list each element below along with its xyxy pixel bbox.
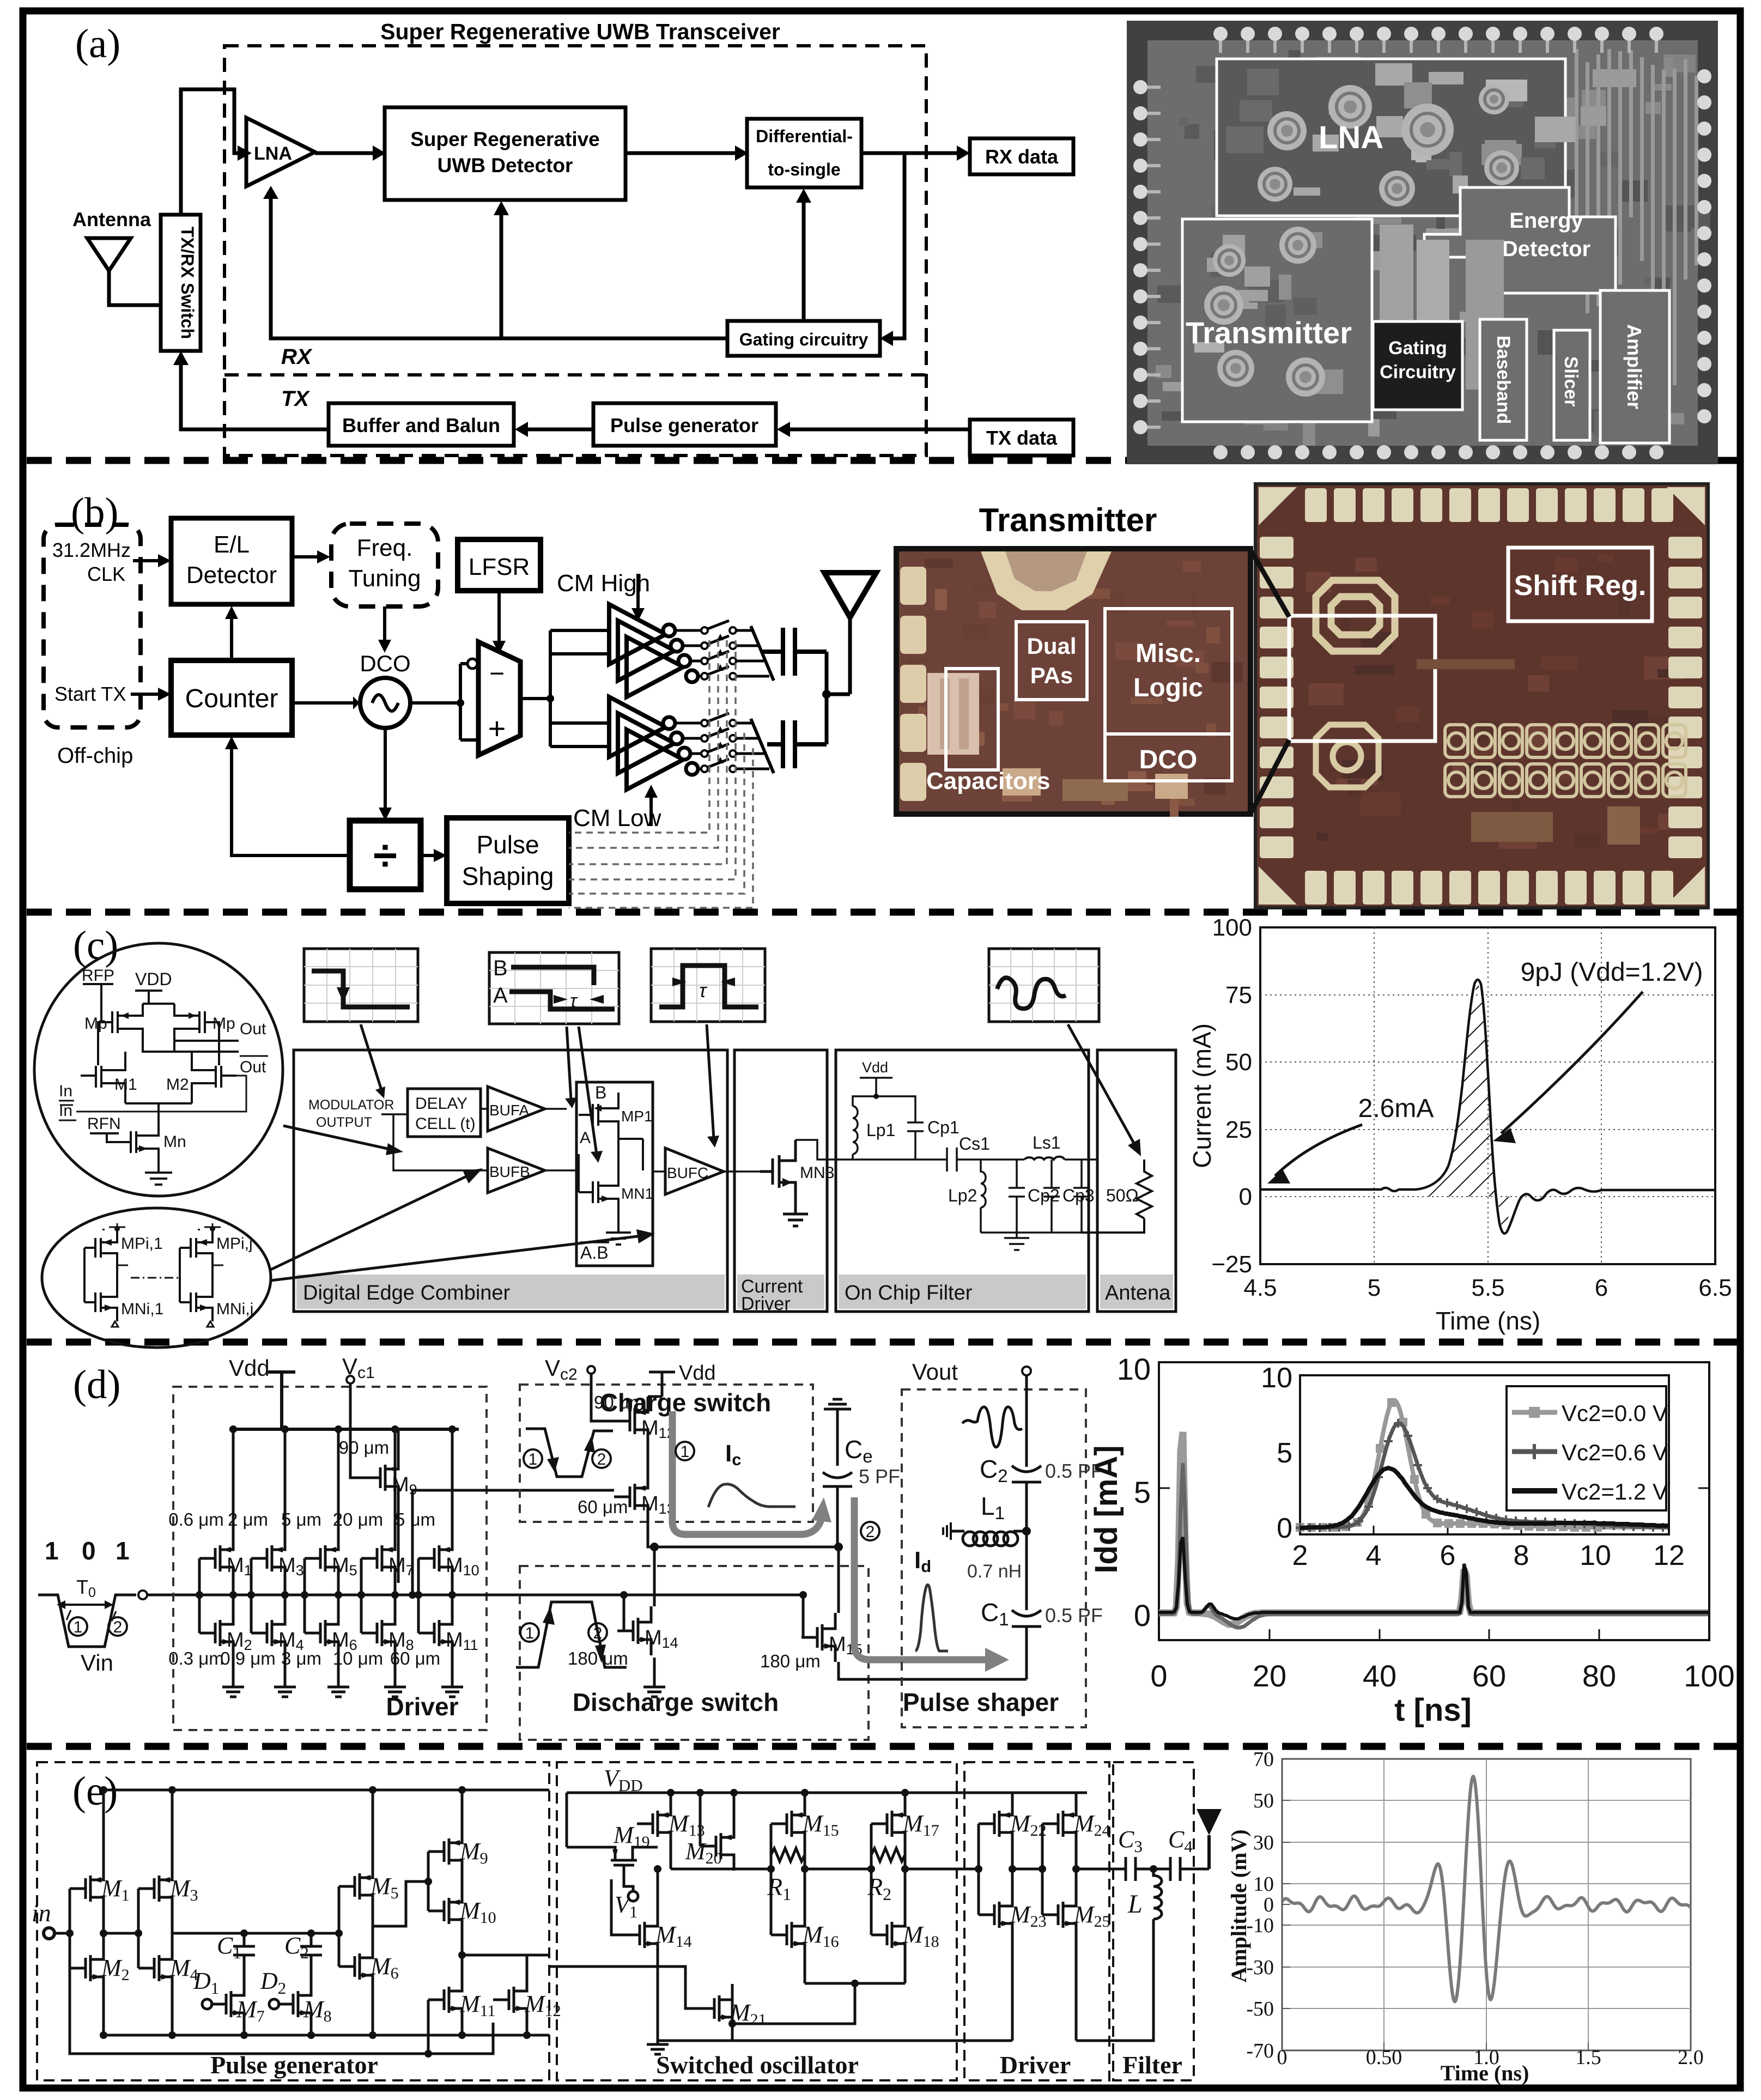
svg-text:LFSR: LFSR — [469, 554, 530, 580]
svg-text:MPi,j: MPi,j — [216, 1235, 253, 1253]
bottom rail + gnd — [981, 1233, 1082, 1250]
stage wires — [418, 1429, 452, 1682]
svg-text:5.5: 5.5 — [1471, 1274, 1504, 1301]
inset box — [1300, 1375, 1669, 1534]
Lp2 — [981, 1160, 986, 1233]
Digital Edge Combiner box — [294, 1050, 727, 1312]
TX/RX switch box — [161, 215, 201, 351]
delay cell detail ellipse — [34, 943, 283, 1196]
Dual PAs label box — [1016, 622, 1087, 700]
svg-text:5: 5 — [1134, 1475, 1151, 1509]
wire detector to diff — [626, 151, 735, 155]
inv2 wires — [138, 1790, 339, 2035]
svg-text:2.6mA: 2.6mA — [1358, 1094, 1434, 1123]
gray arrow 1 — [672, 1411, 822, 1534]
svg-text:0.9 μm: 0.9 μm — [220, 1648, 276, 1668]
off-chip dashed box — [44, 525, 141, 727]
svg-text:Out: Out — [240, 1058, 266, 1076]
TX full chip photo — [1255, 484, 1708, 908]
svg-text:5 PF: 5 PF — [859, 1465, 900, 1488]
svg-text:MN3: MN3 — [800, 1164, 834, 1182]
svg-text:Amplitude (mV): Amplitude (mV) — [1226, 1829, 1251, 1982]
panel separator a/b — [27, 457, 1737, 464]
svg-text:0: 0 — [1134, 1598, 1151, 1632]
nmos M8 — [277, 1980, 311, 2029]
nmos MN1 — [576, 1139, 618, 1221]
pmos M3 — [251, 1534, 285, 1583]
gating to LNA bottom feedback — [271, 198, 727, 338]
buffer bank upper — [609, 604, 683, 697]
svg-text:CM Low: CM Low — [573, 805, 661, 831]
gating circuitry box — [727, 321, 880, 356]
inset black curve — [1300, 1468, 1668, 1528]
svg-text:to-single: to-single — [768, 160, 840, 179]
svg-text:Slicer: Slicer — [1560, 356, 1581, 407]
svg-text:A: A — [580, 1129, 591, 1147]
cross coupling wires — [98, 1022, 219, 1065]
output node — [618, 1139, 643, 1170]
svg-text:0: 0 — [1239, 1183, 1252, 1210]
stack wires — [428, 1790, 549, 2054]
svg-text:in: in — [32, 1899, 51, 1927]
Energy Detector outline — [1424, 187, 1616, 293]
svg-text:TX: TX — [281, 387, 310, 411]
svg-text:Time (ns): Time (ns) — [1441, 2061, 1529, 2085]
svg-text:100: 100 — [1684, 1659, 1734, 1693]
svg-text:9pJ (Vdd=1.2V): 9pJ (Vdd=1.2V) — [1521, 958, 1703, 987]
svg-text:10: 10 — [1580, 1540, 1611, 1571]
svg-text:LNA: LNA — [254, 143, 292, 164]
svg-text:12: 12 — [1653, 1540, 1685, 1571]
svg-text:10: 10 — [1117, 1352, 1151, 1386]
Idd plot — [1089, 1352, 1735, 1728]
svg-text:0: 0 — [1277, 1513, 1292, 1544]
svg-text:1: 1 — [525, 1624, 535, 1642]
svg-text:0.3 μm: 0.3 μm — [168, 1648, 224, 1668]
pad ring right — [1697, 69, 1711, 83]
Driver dashed box — [173, 1387, 487, 1730]
svg-text:90 μm: 90 μm — [339, 1437, 389, 1458]
svg-text:6: 6 — [1595, 1274, 1608, 1301]
ground SO — [647, 2039, 669, 2054]
node and wire down to gating right — [892, 153, 904, 338]
nmos M14 — [624, 1910, 658, 1959]
misc mid blocks — [1380, 224, 1413, 361]
svg-text:0: 0 — [1150, 1659, 1167, 1693]
svg-text:(b): (b) — [71, 490, 118, 535]
TX data to pulse gen wire — [789, 428, 970, 432]
pad ring right chip — [1259, 487, 1705, 905]
nmos MNi,1 — [84, 1248, 117, 1321]
Filter dashed box — [1113, 1762, 1194, 2080]
svg-text:CLK: CLK — [87, 563, 125, 585]
svg-text:A.B: A.B — [580, 1243, 609, 1263]
svg-text:On Chip Filter: On Chip Filter — [845, 1282, 973, 1304]
svg-text:4: 4 — [1366, 1540, 1382, 1571]
ground — [441, 1682, 463, 1697]
RX data box — [970, 138, 1073, 174]
coupling capacitor lower — [767, 720, 827, 768]
zoom lines — [1252, 551, 1289, 812]
buffer bank lower — [609, 697, 683, 790]
switch row upper2 — [683, 645, 701, 647]
panel separator c/d — [27, 1339, 1737, 1346]
Current Driver box — [734, 1050, 827, 1312]
svg-text:50: 50 — [1253, 1789, 1274, 1812]
pmos M9 — [428, 1827, 462, 1876]
top rail — [104, 1789, 549, 1792]
svg-text:BUFB: BUFB — [489, 1163, 530, 1180]
rising ctrl waveform — [516, 1602, 627, 1667]
On Chip Filter box — [836, 1050, 1089, 1312]
svg-text:Super Regenerative: Super Regenerative — [410, 128, 600, 150]
bottom rail — [104, 2034, 549, 2037]
svg-text:8: 8 — [1514, 1540, 1529, 1571]
ground — [222, 1682, 244, 1697]
DELAY CELL box — [408, 1089, 481, 1137]
svg-text:Lp2: Lp2 — [948, 1186, 977, 1205]
svg-text:Buffer and Balun: Buffer and Balun — [342, 414, 500, 436]
nmos M15 — [801, 1613, 835, 1662]
svg-text:Antenna: Antenna — [72, 208, 151, 230]
capacitor bank block — [927, 673, 979, 755]
pulse gen to buffer wire — [527, 428, 593, 432]
main line — [836, 1158, 1097, 1161]
Driver dashed box — [964, 1762, 1109, 2080]
svg-text:Switched oscillator: Switched oscillator — [656, 2051, 859, 2079]
Capacitors label box — [946, 669, 998, 770]
svg-text:Cp1: Cp1 — [927, 1118, 960, 1137]
svg-text:TX data: TX data — [986, 427, 1058, 449]
50ohm resistor — [1082, 1160, 1152, 1233]
nmos M2 — [199, 1609, 233, 1658]
svg-text:M2: M2 — [166, 1076, 189, 1094]
pmos M19 — [599, 1847, 648, 1881]
svg-text:M1: M1 — [114, 1076, 137, 1094]
RX/TX divider dashed — [224, 373, 926, 377]
svg-text:E/L: E/L — [214, 531, 250, 558]
svg-text:1: 1 — [529, 1450, 538, 1468]
svg-text:Discharge switch: Discharge switch — [573, 1688, 779, 1716]
svg-text:2 μm: 2 μm — [228, 1509, 268, 1530]
Charge switch dashed box — [520, 1385, 813, 1522]
wire LNA out to detector — [315, 151, 373, 155]
svg-text:OUTPUT: OUTPUT — [316, 1115, 372, 1130]
svg-text:6.5: 6.5 — [1698, 1274, 1732, 1301]
svg-text:Mn: Mn — [163, 1133, 186, 1151]
buffer BUFA — [488, 1087, 545, 1131]
M13 drain to node — [648, 1521, 839, 1547]
LNA block outline — [1217, 59, 1565, 216]
TX chip inset photo — [896, 549, 1250, 814]
top pad structure — [981, 551, 1112, 610]
chip micrograph A — [1127, 21, 1718, 464]
svg-text:PAs: PAs — [1030, 663, 1073, 688]
svg-text:Energy: Energy — [1509, 209, 1583, 233]
wire E/L to Freq — [292, 555, 318, 559]
svg-text:180 μm: 180 μm — [568, 1648, 628, 1668]
svg-text:100: 100 — [1212, 914, 1252, 941]
pmos Mp right — [174, 1004, 205, 1041]
nmos M25 — [1042, 1890, 1076, 1939]
svg-text:Current (mA): Current (mA) — [1188, 1023, 1216, 1168]
Transmitter block outline — [1182, 219, 1372, 422]
svg-text:Detector: Detector — [1502, 237, 1590, 261]
svg-text:Ls1: Ls1 — [1033, 1133, 1061, 1152]
stage wires — [199, 1429, 233, 1682]
svg-text:÷: ÷ — [373, 831, 397, 879]
gray baseline band — [1159, 1432, 1708, 1624]
logic chain wire — [189, 1594, 803, 1597]
nmos Mn — [131, 1122, 159, 1166]
feedback to detector bottom — [500, 214, 503, 338]
svg-text:MPi,1: MPi,1 — [121, 1235, 163, 1253]
switch row upper3 — [691, 660, 701, 663]
svg-text:60 μm: 60 μm — [578, 1497, 628, 1517]
pmos MPi,1 — [84, 1229, 117, 1265]
Slicer block — [1554, 330, 1590, 440]
svg-text:Differential-: Differential- — [756, 126, 853, 146]
svg-text:B: B — [595, 1083, 606, 1102]
svg-text:Out: Out — [240, 1020, 266, 1038]
svg-text:Start TX: Start TX — [54, 683, 126, 705]
svg-text:RX data: RX data — [985, 145, 1059, 168]
Baseband block — [1480, 319, 1527, 440]
svg-text:Baseband: Baseband — [1493, 336, 1514, 424]
arrows from ellipses — [283, 1126, 392, 1150]
svg-text:MP1: MP1 — [621, 1108, 653, 1125]
wire Counter to E/L — [230, 618, 233, 660]
svg-text:Driver: Driver — [741, 1294, 791, 1314]
svg-text:180 μm: 180 μm — [760, 1651, 821, 1671]
Discharge switch dashed box — [520, 1566, 869, 1740]
inset sine — [989, 949, 1099, 1022]
pmos M3 — [138, 1864, 172, 1913]
pmos M17 — [871, 1799, 905, 1848]
circled 1 — [69, 1617, 87, 1636]
svg-text:LNA: LNA — [1319, 120, 1383, 155]
svg-text:A: A — [493, 984, 508, 1007]
svg-text:Gating: Gating — [1388, 338, 1447, 359]
wire DCO to divider — [384, 728, 387, 809]
wire diff to RX data — [861, 151, 957, 155]
wire LFSR to mux — [497, 591, 501, 642]
pmos M15 — [771, 1799, 805, 1848]
nmos M6 — [339, 1942, 373, 1991]
svg-text:Vc2=1.2 V: Vc2=1.2 V — [1562, 1479, 1668, 1504]
dash-dot link — [131, 1277, 180, 1279]
amplitude plot — [1226, 1748, 1704, 2085]
svg-text:Vout: Vout — [912, 1359, 958, 1385]
svg-text:5 μm: 5 μm — [395, 1509, 435, 1530]
svg-text:Vdd: Vdd — [229, 1355, 270, 1381]
svg-text:Tuning: Tuning — [349, 565, 421, 592]
pmos M10 — [428, 1886, 462, 1935]
pmos Mp left — [112, 1004, 143, 1041]
svg-text:−: − — [489, 659, 505, 688]
gray arrow 2 — [854, 1497, 987, 1660]
svg-text:Pulse generator: Pulse generator — [610, 414, 758, 436]
svg-text:DCO: DCO — [360, 651, 410, 676]
svg-text:Logic: Logic — [1133, 673, 1203, 702]
svg-text:5 μm: 5 μm — [281, 1509, 321, 1530]
svg-text:BUFA: BUFA — [489, 1102, 529, 1119]
Misc Logic / DCO label boxes — [1105, 609, 1232, 781]
svg-text:1: 1 — [74, 1618, 83, 1636]
svg-text:B: B — [493, 956, 508, 980]
svg-text:Dual: Dual — [1027, 633, 1076, 659]
differential-to-single box — [747, 119, 861, 187]
ground — [274, 1682, 296, 1697]
E/L Detector block — [171, 518, 292, 604]
svg-text:5: 5 — [1277, 1437, 1292, 1469]
pmos M12 — [614, 1397, 648, 1446]
pmos M22 — [979, 1799, 1012, 1848]
svg-text:L: L — [1127, 1890, 1143, 1919]
stage wires — [361, 1429, 395, 1682]
buffer slice ellipse — [42, 1208, 271, 1348]
svg-text:-50: -50 — [1246, 1998, 1274, 2020]
svg-text:10: 10 — [1253, 1873, 1274, 1896]
Out wire — [143, 1041, 239, 1052]
Freq. Tuning dashed block — [331, 524, 438, 606]
nmos M1 — [81, 1052, 125, 1103]
Ce cap — [823, 1444, 852, 1547]
pmos M13 — [637, 1799, 671, 1848]
svg-text:Vdd: Vdd — [679, 1362, 716, 1385]
LNA spiral inductors — [1328, 85, 1372, 129]
svg-text:DCO: DCO — [1139, 745, 1198, 774]
svg-text:MNi,j: MNi,j — [216, 1300, 253, 1318]
legend — [1507, 1386, 1666, 1510]
svg-text:MN1: MN1 — [621, 1185, 653, 1202]
switch row lower1 — [676, 722, 701, 725]
Pulse generator dashed box — [37, 1762, 549, 2080]
pad ring bottom — [1213, 445, 1228, 459]
falling ctrl waveform — [526, 1429, 613, 1477]
svg-text:(d): (d) — [73, 1362, 120, 1407]
Shift Reg label box — [1508, 548, 1652, 621]
svg-text:Detector: Detector — [186, 562, 277, 588]
svg-text:Vc2=0.6 V: Vc2=0.6 V — [1562, 1440, 1668, 1465]
svg-text:Capacitors: Capacitors — [926, 768, 1050, 794]
ground — [384, 1682, 406, 1697]
In wire to M2 gate — [76, 1076, 246, 1112]
svg-text:Amplifier: Amplifier — [1623, 324, 1645, 409]
svg-text:RX: RX — [281, 345, 313, 369]
svg-text:0: 0 — [1264, 1893, 1274, 1916]
divider block — [350, 821, 421, 889]
svg-text:2: 2 — [597, 1450, 606, 1468]
pmos M5 — [339, 1862, 373, 1911]
R2 resistor — [871, 1848, 905, 1861]
dark gray curve — [1159, 1463, 1708, 1628]
svg-text:40: 40 — [1363, 1659, 1396, 1693]
Vin trapezoid waveform — [38, 1595, 136, 1647]
nmos M21 — [699, 1984, 732, 2033]
svg-text:Digital Edge Combiner: Digital Edge Combiner — [303, 1282, 511, 1304]
Gating Circuitry block — [1373, 321, 1462, 410]
nmos M6 — [305, 1609, 338, 1658]
inset light gray curve — [1300, 1400, 1668, 1527]
svg-text:5: 5 — [1368, 1274, 1381, 1301]
svg-text:Transmitter: Transmitter — [1186, 315, 1352, 350]
pmos M5 — [305, 1534, 338, 1583]
inv3 wires — [339, 1790, 428, 2035]
dashed control lines — [569, 640, 753, 908]
pmos M9 — [365, 1453, 398, 1502]
svg-text:1: 1 — [116, 1537, 130, 1565]
input node wire — [138, 1591, 147, 1599]
svg-text:UWB Detector: UWB Detector — [438, 154, 573, 177]
svg-text:(a): (a) — [75, 21, 120, 66]
pmos M1 — [199, 1534, 233, 1583]
SR UWB detector box — [385, 107, 626, 200]
svg-text:2: 2 — [1292, 1540, 1308, 1571]
svg-text:Shift Reg.: Shift Reg. — [1514, 570, 1647, 602]
svg-text:90 μm: 90 μm — [594, 1392, 644, 1412]
nmos MNi,j — [180, 1248, 212, 1321]
svg-text:50: 50 — [1225, 1049, 1252, 1076]
panel separator b/c — [27, 909, 1737, 916]
Cp1 — [876, 1096, 924, 1160]
Switched oscillator dashed box — [557, 1762, 957, 2080]
wire switch to LNA — [181, 89, 238, 215]
pmos M20 — [700, 1822, 734, 1871]
pad ring top — [1133, 27, 1711, 459]
nmos M14 — [617, 1606, 651, 1655]
nmos M2 — [70, 1944, 104, 1993]
svg-text:In: In — [59, 1082, 72, 1100]
left pads — [900, 567, 926, 605]
svg-text:Vc2=0.0 V: Vc2=0.0 V — [1562, 1400, 1668, 1426]
svg-text:3 μm: 3 μm — [281, 1648, 321, 1668]
inset tau pulse — [651, 949, 765, 1022]
svg-text:MODULATOR: MODULATOR — [308, 1097, 394, 1113]
M9 out wire to M13 gate — [412, 1490, 614, 1595]
svg-text:MNi,1: MNi,1 — [121, 1300, 163, 1318]
tail node wires — [125, 1103, 192, 1122]
svg-text:31.2MHz: 31.2MHz — [52, 539, 131, 561]
gating top to diff bottom — [802, 202, 806, 321]
wire DCO to mux — [410, 664, 477, 740]
svg-text:Cs1: Cs1 — [959, 1134, 990, 1154]
svg-text:Mp: Mp — [212, 1015, 235, 1033]
svg-text:30: 30 — [1253, 1831, 1274, 1854]
svg-text:Gating circuitry: Gating circuitry — [739, 330, 869, 349]
pmos M1 — [70, 1864, 104, 1913]
wire mod out — [381, 1114, 488, 1170]
NAND cell box — [576, 1082, 653, 1266]
nmos M18 — [871, 1910, 905, 1959]
nmos MN3 — [760, 1140, 839, 1226]
svg-text:10 μm: 10 μm — [333, 1648, 383, 1668]
Pulse Shaping block — [447, 818, 569, 903]
svg-text:10: 10 — [1261, 1362, 1292, 1394]
wire divider feedback to counter — [232, 748, 350, 855]
svg-text:Pulse shaper: Pulse shaper — [903, 1688, 1059, 1716]
switch row lower2 — [683, 737, 701, 740]
pad ring left — [1133, 80, 1147, 94]
current plot — [1188, 914, 1732, 1335]
svg-text:Shaping: Shaping — [462, 862, 554, 890]
pmos M13 — [614, 1472, 648, 1521]
svg-text:80: 80 — [1582, 1659, 1616, 1693]
Antena box — [1097, 1050, 1176, 1312]
pmos MP1 — [576, 1093, 653, 1245]
pmos M24 — [1042, 1799, 1076, 1848]
inset B/A delay — [489, 952, 619, 1024]
